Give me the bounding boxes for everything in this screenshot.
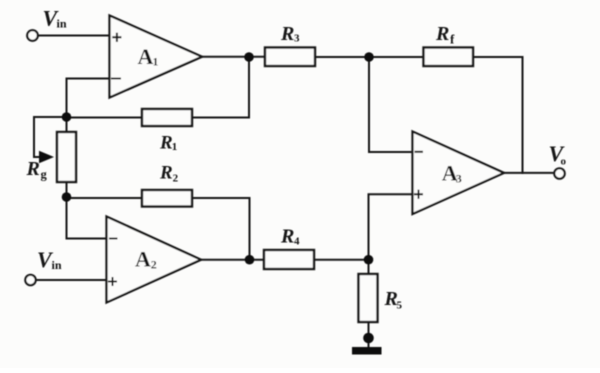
svg-text:in: in [52,258,62,272]
svg-text:R: R [159,133,173,154]
svg-text:g: g [41,168,48,182]
svg-text:R: R [26,158,40,180]
svg-text:o: o [561,156,567,168]
svg-text:2: 2 [173,173,179,185]
svg-text:R: R [280,23,294,45]
svg-text:2: 2 [151,257,157,271]
svg-text:R: R [280,226,294,248]
svg-text:1: 1 [172,141,178,153]
svg-text:1: 1 [153,55,159,69]
svg-text:in: in [57,16,67,30]
svg-text:4: 4 [294,235,300,247]
svg-text:3: 3 [456,171,462,185]
svg-text:R: R [159,163,173,184]
svg-text:A: A [138,44,154,69]
svg-text:R: R [435,23,449,45]
svg-text:3: 3 [294,33,300,45]
svg-text:f: f [450,32,455,47]
svg-text:A: A [135,246,151,271]
svg-text:5: 5 [397,300,403,312]
